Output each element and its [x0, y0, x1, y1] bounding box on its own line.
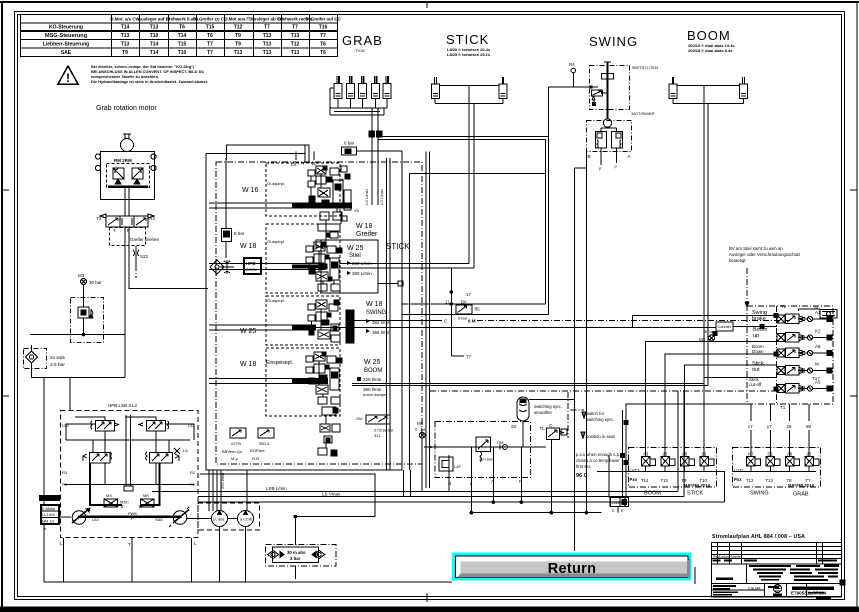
- row2 hose bar: [292, 265, 325, 269]
- return filter outlet: [294, 566, 296, 579]
- swing row wire to bank: [316, 327, 716, 329]
- regulator valve left: [91, 421, 119, 432]
- svg-text:T14: T14: [178, 33, 187, 39]
- svg-text:380 L/min: 380 L/min: [352, 271, 372, 276]
- svg-text:T12: T12: [291, 42, 300, 48]
- wire tank line to pump: [69, 378, 71, 411]
- svg-text:LS Vmax: LS Vmax: [322, 492, 341, 497]
- svg-text:T10: T10: [150, 33, 159, 39]
- svg-text:D.Mot. a/s CW: D.Mot. a/s CW: [110, 17, 140, 22]
- svg-text:M3: M3: [78, 273, 85, 278]
- row3 spool black bar: [346, 310, 354, 343]
- block bottom small valve 2: [258, 428, 274, 446]
- svg-text:Down: Down: [752, 349, 764, 354]
- svg-text:W 25: W 25: [364, 359, 380, 366]
- check valve OM: [497, 440, 507, 450]
- tank return wire: [200, 474, 375, 516]
- boom cylinder left: [669, 77, 677, 99]
- svg-text:W 18: W 18: [356, 223, 372, 230]
- oil cooler HPB box: [244, 258, 261, 274]
- swing brake valve right: [608, 128, 623, 148]
- svg-text:T9: T9: [235, 42, 241, 48]
- svg-text:LSB L/min: LSB L/min: [266, 486, 287, 491]
- X mark 1.8: [174, 448, 188, 454]
- svg-text:30 bar: 30 bar: [704, 329, 716, 334]
- svg-text:30-I bar: 30-I bar: [479, 457, 493, 462]
- boom line B to block: [352, 385, 708, 387]
- grab motor port circle top-right: [151, 154, 156, 159]
- dash-dot drop line: [135, 266, 137, 278]
- svg-text:betaetigt: betaetigt: [729, 258, 746, 263]
- svg-text:17: 17: [445, 300, 450, 305]
- regulator feed wires: [66, 417, 194, 453]
- terminal strip LVT3 box: [628, 448, 716, 488]
- svg-text:LS L/min: LS L/min: [379, 189, 384, 205]
- svg-text:T14: T14: [641, 478, 649, 483]
- LS gallery line 1: [425, 152, 427, 489]
- swing drain stub right: [615, 148, 618, 169]
- svg-text:y7: y7: [767, 424, 772, 429]
- grab motor port circle bottom-left: [95, 165, 100, 170]
- shaft E-motor to pump: [59, 516, 71, 518]
- swing return wire B: [402, 314, 549, 316]
- grab pipes motor to valve: [124, 188, 126, 216]
- row4 boom valve cluster: [306, 352, 342, 456]
- row4 hose bar: [292, 379, 328, 383]
- svg-text:T7: T7: [207, 50, 213, 56]
- svg-text:TV18: TV18: [355, 48, 365, 53]
- return button bottom shadow: [457, 558, 691, 578]
- pressure relief dash-dot box: [71, 298, 104, 343]
- wire filter drop: [32, 363, 126, 378]
- svg-text:CHLMA: CHLMA: [748, 587, 761, 591]
- svg-text:0 bar: 0 bar: [458, 316, 468, 321]
- label Boom up: [753, 327, 768, 339]
- accumulator S2: [511, 397, 529, 447]
- svg-text:Z73/18 bar: Z73/18 bar: [374, 428, 394, 433]
- svg-text:T15: T15: [178, 42, 187, 48]
- aux pump drains: [219, 527, 221, 583]
- grab hose coupling B: [369, 131, 375, 137]
- svg-text:26: 26: [807, 452, 812, 457]
- return filter dash-dot box: [266, 545, 337, 567]
- annotation text BV am Stiel: [729, 246, 800, 263]
- svg-text:out: out: [752, 367, 760, 373]
- boom line A to block: [352, 383, 704, 385]
- svg-text:DORiert: DORiert: [250, 448, 265, 453]
- svg-text:SAE: SAE: [61, 50, 72, 56]
- svg-text:17: 17: [466, 292, 472, 297]
- svg-text:T13: T13: [263, 33, 272, 39]
- gray note switch for: [586, 411, 614, 422]
- svg-text:Greifer drehen: Greifer drehen: [130, 237, 160, 242]
- wire valve T to block: [129, 227, 145, 289]
- row4 thin hose lines: [209, 378, 328, 380]
- svg-text:Greifer: Greifer: [356, 231, 378, 238]
- E-Motor box: [41, 505, 59, 524]
- counter feed riser: [608, 455, 610, 498]
- row2 stick valve cluster: [306, 242, 342, 291]
- svg-text:boom damper: boom damper: [363, 392, 388, 397]
- pilot valve TL C: [540, 423, 568, 439]
- svg-text:Pxx: Pxx: [630, 477, 638, 482]
- boom pipe B: [707, 103, 709, 386]
- staircase wire stick cutoff: [704, 378, 777, 456]
- svg-text:A3: A3: [643, 452, 649, 457]
- gauge M5: [415, 421, 427, 438]
- grab cylinder 5: [383, 76, 391, 99]
- svg-text:3 bar: 3 bar: [290, 556, 301, 561]
- bold pipe right: [140, 463, 160, 505]
- svg-text:T13: T13: [121, 42, 130, 48]
- wire into swing box: [549, 86, 599, 88]
- svg-text:switch for: switch for: [586, 411, 605, 416]
- return filter feed: [294, 517, 296, 545]
- svg-text:p.s.v when enough s.p.: p.s.v when enough s.p.: [576, 452, 620, 457]
- table column lines: [111, 15, 113, 57]
- return filter diamond right: [314, 551, 325, 559]
- aux pump 1: [212, 511, 228, 527]
- swing relief valve: [592, 90, 608, 106]
- svg-text:W 18: W 18: [366, 301, 382, 308]
- svg-text:OM: OM: [497, 440, 503, 445]
- LS gallery line 2: [428, 152, 430, 489]
- block outlet risers to pumps: [208, 470, 210, 511]
- row3 labels: [366, 301, 391, 335]
- grab hose coupling R: [377, 131, 383, 137]
- svg-text:STICK: STICK: [687, 491, 704, 497]
- svg-text:T9: T9: [122, 50, 128, 56]
- return button cyan frame: [452, 553, 692, 581]
- wire block to swing pair: [410, 172, 546, 174]
- bank bottom wire: [776, 388, 778, 390]
- svg-text:T13: T13: [150, 25, 159, 31]
- svg-text:Ausleger oder Verschraubungssc: Ausleger oder Verschraubungsschutz: [729, 252, 800, 257]
- svg-text:W 16: W 16: [242, 187, 258, 194]
- terminal riser c7: [748, 404, 753, 456]
- relief valve drain: [83, 318, 85, 335]
- counter box: [716, 322, 777, 331]
- svg-text:Name: Name: [731, 555, 741, 559]
- svg-text:2.5 bar: 2.5 bar: [50, 362, 65, 368]
- block right second edge: [409, 173, 411, 470]
- svg-text:LVT3: LVT3: [630, 468, 641, 473]
- gauge R4: [569, 62, 576, 87]
- block bottom small valve 1: [230, 428, 246, 446]
- svg-text:T6: T6: [179, 25, 185, 31]
- row2 dashed section box: [266, 224, 340, 293]
- svg-text:STICK: STICK: [446, 32, 489, 47]
- svg-text:T6: T6: [320, 50, 326, 56]
- T1 return wire: [626, 404, 747, 498]
- tank gallery line 1: [386, 158, 388, 470]
- svg-text:E: E: [621, 508, 624, 513]
- svg-text:switching ejec.: switching ejec.: [534, 404, 562, 409]
- svg-text:smoother: smoother: [534, 410, 552, 415]
- svg-text:switching ejec.: switching ejec.: [586, 417, 614, 422]
- swing upper dash-dot box: [590, 66, 630, 110]
- breather filter dash-dot box: [24, 349, 47, 369]
- outer drawing border right: [856, 2, 858, 608]
- grab manifold wires: [330, 88, 387, 115]
- svg-text:T6: T6: [207, 33, 213, 39]
- LVT1 terminal 3: [786, 452, 800, 484]
- svg-text:BOOM: BOOM: [364, 368, 382, 374]
- warning triangle: [58, 66, 78, 84]
- svg-text:T12: T12: [234, 25, 243, 31]
- svg-text:T9: T9: [235, 33, 241, 39]
- label Stick out: [752, 361, 764, 373]
- svg-text:S2: S2: [511, 424, 517, 429]
- aux pump dashed box: [198, 503, 260, 530]
- drain wire lower: [471, 512, 601, 514]
- svg-text:L53: L53: [92, 517, 99, 522]
- svg-text:T13: T13: [234, 50, 243, 56]
- pump internal lines verticals: [66, 415, 190, 508]
- svg-text:P: P: [131, 516, 134, 521]
- svg-text:T13: T13: [291, 50, 300, 56]
- title block mid separators: [746, 564, 748, 584]
- terminal riser 98: [806, 404, 812, 456]
- svg-text:MAT4ML3D18: MAT4ML3D18: [684, 483, 711, 488]
- swing brake valve left: [596, 128, 608, 148]
- LVT1 bus: [733, 471, 816, 473]
- corner labels: [62, 423, 196, 487]
- svg-text:A: A: [628, 154, 631, 159]
- svg-text:LS L/min: LS L/min: [364, 189, 369, 205]
- block top wire inner: [206, 154, 305, 163]
- label Swing brake: [752, 310, 767, 322]
- table row line 3: [21, 39, 338, 41]
- svg-text:Pxx: Pxx: [734, 477, 742, 482]
- boom pipe A: [703, 103, 705, 384]
- svg-text:BOOM: BOOM: [644, 491, 661, 497]
- title block columns top: [717, 543, 719, 565]
- grab motor housing box: [101, 152, 155, 200]
- svg-text:MSG-Steuerung: MSG-Steuerung: [45, 33, 88, 39]
- svg-text:M-p: M-p: [231, 456, 239, 461]
- logo circle: [773, 585, 782, 596]
- tank bus riser: [43, 524, 45, 582]
- svg-text:Grab rotation motor: Grab rotation motor: [96, 105, 157, 112]
- title block rows top: [712, 546, 842, 548]
- svg-text:T13: T13: [263, 50, 272, 56]
- svg-text:R: R: [379, 131, 382, 136]
- svg-text:B5: B5: [475, 307, 481, 312]
- accumulator gray label: [534, 404, 562, 415]
- gray note psv: [576, 452, 620, 469]
- svg-text:T7: T7: [292, 25, 298, 31]
- dash-dot stub 2: [571, 409, 584, 411]
- stick line A to block: [340, 263, 469, 265]
- svg-text:Die Hydraulikanlage ist stets: Die Hydraulikanlage ist stets in drucken…: [91, 79, 208, 84]
- pump drain L: [60, 538, 64, 582]
- svg-text:D.Mot aus /TI: D.Mot aus /TI: [224, 17, 251, 22]
- port drop R1: [448, 455, 450, 492]
- svg-text:8 bar: 8 bar: [234, 231, 245, 236]
- svg-text:T7: T7: [466, 355, 472, 360]
- servo valve left: [83, 452, 112, 463]
- warning text lines: [91, 64, 208, 84]
- row3 dashed section box: [266, 296, 340, 345]
- pilot dash-dot line lower: [430, 390, 777, 392]
- stick pipe A: [468, 103, 470, 264]
- wire horizontal to filter: [30, 334, 125, 336]
- grab motor base line: [108, 185, 148, 188]
- terminal riser 28: [787, 404, 793, 456]
- svg-text:T16: T16: [319, 25, 328, 31]
- throttle S22: [133, 246, 149, 266]
- main control block dash-dot inner box: [216, 162, 422, 464]
- title block frame: [712, 543, 842, 598]
- svg-text:MSC: MSC: [120, 500, 129, 505]
- return filter diamond left: [268, 551, 279, 559]
- main control block outer outline: [206, 151, 402, 470]
- gauge M2: [699, 329, 717, 342]
- grab pipe B: [371, 108, 373, 131]
- return filter text: [287, 550, 306, 561]
- svg-text:Datum: Datum: [719, 555, 730, 559]
- boom cylinder manifold: [673, 86, 744, 104]
- row1 hose bar: [292, 204, 352, 208]
- table row line 2: [21, 30, 338, 32]
- LVT3 terminal 3: [681, 452, 695, 484]
- gray note arrow 2: [581, 432, 585, 438]
- regulator valve right: [139, 421, 169, 432]
- pilot valve drop: [550, 439, 552, 512]
- row1 right labels: [356, 223, 378, 238]
- label Boom Down: [752, 344, 764, 354]
- return button top highlight: [459, 560, 687, 562]
- svg-text:98: 98: [806, 424, 812, 429]
- fold mark top center: [426, 2, 428, 8]
- svg-text:BOOM: BOOM: [687, 28, 731, 43]
- brake control dash-dot box: [435, 422, 531, 478]
- block right edge drops: [403, 470, 405, 497]
- svg-text:30 bar: 30 bar: [89, 280, 102, 285]
- LVT3 labels: [630, 468, 641, 482]
- svg-text:200/18 f: dual abas 8.4s: 200/18 f: dual abas 8.4s: [688, 48, 733, 53]
- svg-text:MOT/SW/BR: MOT/SW/BR: [632, 111, 655, 116]
- svg-text:T7: T7: [207, 42, 213, 48]
- fold mark right upper: [850, 189, 857, 191]
- svg-text:6 M: 6 M: [468, 319, 476, 324]
- swing feed pair vertical: [548, 87, 550, 315]
- junction dots: [294, 501, 588, 518]
- reducing valve: [476, 437, 493, 462]
- svg-text:a CCW: a CCW: [240, 518, 253, 522]
- svg-text:W 18: W 18: [240, 243, 256, 250]
- svg-text:Liebherr-Steuerung: Liebherr-Steuerung: [43, 42, 89, 48]
- svg-text:KO-Steuerung: KO-Steuerung: [49, 25, 83, 31]
- gray note arrow 1: [582, 412, 586, 418]
- return button inner panel: [456, 556, 689, 578]
- grab cylinder 2: [347, 76, 355, 99]
- svg-text:Einspeisepl.: Einspeisepl.: [266, 360, 293, 366]
- LVT1 terminal 1: [746, 452, 761, 484]
- svg-text:COOL: COOL: [246, 267, 258, 272]
- svg-text:SWING: SWING: [750, 491, 769, 497]
- boom cylinder right: [740, 77, 748, 99]
- swing feed pair horizontal: [378, 136, 549, 138]
- T1 return wire second: [622, 410, 624, 498]
- bold pipe left: [90, 463, 122, 505]
- svg-text:T13: T13: [121, 33, 130, 39]
- pump drain T: [128, 538, 132, 582]
- svg-text:SWING: SWING: [366, 310, 387, 316]
- staircase wire boom up: [646, 342, 777, 457]
- svg-text:2x wds: 2x wds: [50, 355, 66, 361]
- solenoid block MX left: [104, 493, 118, 507]
- port drop L: [470, 447, 472, 513]
- svg-text:1.8: 1.8: [182, 448, 188, 453]
- connection table frame: [21, 15, 338, 57]
- row1 grab valve cluster: [308, 166, 351, 247]
- port labels R L A R: [448, 479, 523, 486]
- svg-text:X6: X6: [354, 208, 360, 213]
- svg-text:up: up: [753, 333, 759, 339]
- row2 thin hose lines: [209, 263, 325, 265]
- svg-text:0 - bar: 0 - bar: [415, 427, 427, 432]
- terminal riser y7: [767, 404, 772, 456]
- svg-text:!: !: [66, 71, 70, 85]
- return button face: [459, 560, 687, 575]
- solenoid valve SV4: [777, 366, 832, 375]
- annotation leader dash-dot: [745, 268, 749, 307]
- svg-text:St.Greifer auf CC: St.Greifer auf CC: [305, 17, 341, 22]
- svg-text:MAT4ML3D18: MAT4ML3D18: [788, 483, 815, 488]
- LS line 2: [198, 492, 684, 497]
- grab cylinder 4: [372, 76, 380, 99]
- solenoid bank dash-dot box: [747, 306, 833, 404]
- svg-text:N3: N3: [149, 216, 155, 221]
- svg-text:D1: D1: [768, 452, 774, 457]
- fold mark left upper: [2, 189, 9, 191]
- svg-text:LL abs: LL abs: [213, 518, 224, 522]
- outer drawing border left: [1, 2, 3, 608]
- svg-text:227%: 227%: [231, 441, 242, 446]
- svg-text:St.Greifer zu CL: St.Greifer zu CL: [193, 17, 226, 22]
- svg-text:T15: T15: [206, 25, 215, 31]
- row2 labels: [347, 245, 372, 276]
- grab cylinder 1: [334, 76, 342, 99]
- port drop A: [492, 447, 494, 502]
- svg-text:Öl.aspirpl.: Öl.aspirpl.: [267, 298, 285, 303]
- port stubs: [295, 152, 297, 161]
- port drop R2: [520, 447, 522, 502]
- svg-text:LL3 kW: LL3 kW: [42, 513, 55, 517]
- svg-text:6 bar: 6 bar: [344, 141, 355, 146]
- return filter arrows: [280, 552, 316, 558]
- branch riser to swing brake valve: [633, 316, 778, 328]
- svg-text:26: 26: [663, 452, 668, 457]
- wire valve P down: [124, 227, 126, 335]
- svg-text:SWITSTL/TEN: SWITSTL/TEN: [632, 65, 659, 70]
- svg-text:26: 26: [702, 452, 707, 457]
- bottom black strip: [0, 607, 859, 612]
- svg-text:T12: T12: [746, 478, 754, 483]
- svg-text:MK: MK: [143, 493, 149, 498]
- svg-text:W 25: W 25: [240, 328, 256, 335]
- pilot supply 6 bar box: [342, 141, 403, 156]
- svg-text:T6: T6: [320, 42, 326, 48]
- svg-text:A8: A8: [787, 452, 793, 457]
- table row line 4: [21, 47, 338, 49]
- grab motor port circle top-left: [95, 154, 100, 159]
- pump unit dashed box: [61, 411, 199, 538]
- grab pipe R: [377, 108, 379, 131]
- P supply line: [424, 446, 546, 448]
